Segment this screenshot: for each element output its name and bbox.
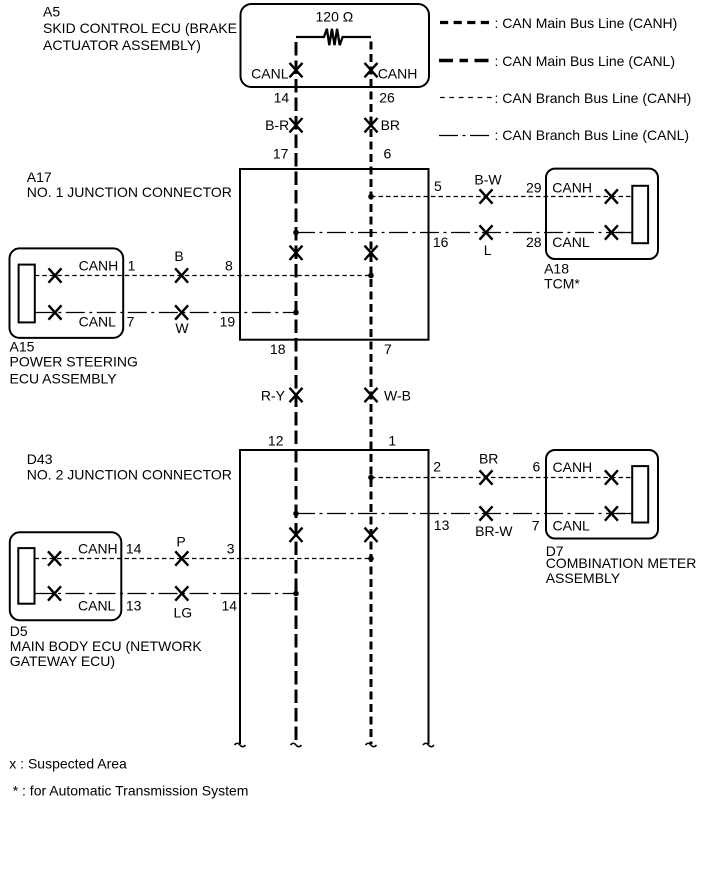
svg-text:CANH: CANH [378, 65, 418, 81]
svg-text:POWER STEERING: POWER STEERING [10, 354, 138, 370]
svg-text:NO. 2 JUNCTION CONNECTOR: NO. 2 JUNCTION CONNECTOR [27, 467, 232, 483]
svg-text:CANH: CANH [553, 459, 593, 475]
svg-text:CANL: CANL [79, 314, 117, 330]
svg-text:CANH: CANH [78, 540, 118, 556]
svg-text:* : for Automatic Transmission: * : for Automatic Transmission System [13, 783, 249, 799]
svg-text:2: 2 [433, 458, 441, 474]
svg-text:: CAN Main Bus Line (CANL): : CAN Main Bus Line (CANL) [495, 53, 676, 69]
svg-text:COMBINATION METER: COMBINATION METER [546, 555, 697, 571]
svg-text:GATEWAY ECU): GATEWAY ECU) [10, 653, 115, 669]
svg-text:: CAN Branch Bus Line (CANL): : CAN Branch Bus Line (CANL) [495, 127, 690, 143]
svg-text:W-B: W-B [384, 388, 411, 404]
svg-text:B: B [174, 248, 183, 264]
svg-text:7: 7 [384, 341, 392, 357]
svg-text:A18: A18 [544, 260, 569, 276]
svg-text:29: 29 [526, 180, 542, 196]
svg-text:12: 12 [268, 432, 284, 448]
svg-text:1: 1 [128, 257, 136, 273]
svg-text:D5: D5 [10, 623, 28, 639]
svg-text:TCM*: TCM* [544, 275, 580, 291]
svg-text:: CAN Main Bus Line (CANH): : CAN Main Bus Line (CANH) [495, 15, 678, 31]
svg-text:17: 17 [273, 146, 289, 162]
svg-text:W: W [175, 320, 189, 336]
svg-text:CANH: CANH [552, 180, 592, 196]
svg-text:ECU ASSEMBLY: ECU ASSEMBLY [10, 370, 118, 386]
svg-text:NO. 1 JUNCTION CONNECTOR: NO. 1 JUNCTION CONNECTOR [27, 184, 232, 200]
svg-text:MAIN BODY ECU (NETWORK: MAIN BODY ECU (NETWORK [10, 638, 203, 654]
svg-text:26: 26 [379, 89, 395, 105]
svg-text:BR: BR [479, 450, 498, 466]
svg-text:SKID CONTROL ECU (BRAKE: SKID CONTROL ECU (BRAKE [43, 20, 237, 36]
svg-text:A5: A5 [43, 4, 60, 20]
svg-text:CANL: CANL [552, 234, 590, 250]
svg-text:CANL: CANL [78, 598, 116, 614]
svg-text:16: 16 [433, 234, 449, 250]
svg-text:D43: D43 [27, 451, 53, 467]
svg-text:3: 3 [227, 540, 235, 556]
svg-text:LG: LG [173, 605, 192, 621]
svg-text:7: 7 [532, 518, 540, 534]
svg-text:5: 5 [434, 178, 442, 194]
svg-text:B-W: B-W [474, 172, 502, 188]
svg-text:P: P [176, 533, 185, 549]
svg-text:13: 13 [126, 598, 142, 614]
svg-text:ASSEMBLY: ASSEMBLY [546, 570, 621, 586]
svg-text:: CAN Branch Bus Line (CANH): : CAN Branch Bus Line (CANH) [495, 90, 692, 106]
svg-text:19: 19 [220, 314, 236, 330]
svg-text:18: 18 [270, 341, 286, 357]
svg-text:6: 6 [533, 458, 541, 474]
svg-text:ACTUATOR ASSEMBLY): ACTUATOR ASSEMBLY) [43, 37, 201, 53]
svg-text:BR-W: BR-W [475, 523, 513, 539]
svg-text:6: 6 [384, 146, 392, 162]
svg-text:L: L [484, 242, 492, 258]
svg-text:CANL: CANL [553, 518, 591, 534]
svg-text:28: 28 [526, 234, 542, 250]
svg-text:x : Suspected Area: x : Suspected Area [9, 755, 127, 771]
svg-text:14: 14 [126, 540, 142, 556]
svg-text:1: 1 [388, 432, 396, 448]
svg-text:CANH: CANH [79, 257, 119, 273]
svg-text:CANL: CANL [251, 65, 289, 81]
svg-text:BR: BR [381, 117, 400, 133]
svg-text:A15: A15 [10, 338, 35, 354]
svg-text:120 Ω: 120 Ω [316, 9, 354, 25]
svg-text:8: 8 [225, 257, 233, 273]
svg-text:14: 14 [222, 598, 238, 614]
svg-text:7: 7 [127, 314, 135, 330]
svg-text:13: 13 [434, 517, 450, 533]
svg-text:14: 14 [274, 89, 290, 105]
svg-text:B-R: B-R [265, 117, 289, 133]
svg-text:A17: A17 [27, 169, 52, 185]
svg-text:R-Y: R-Y [261, 388, 286, 404]
